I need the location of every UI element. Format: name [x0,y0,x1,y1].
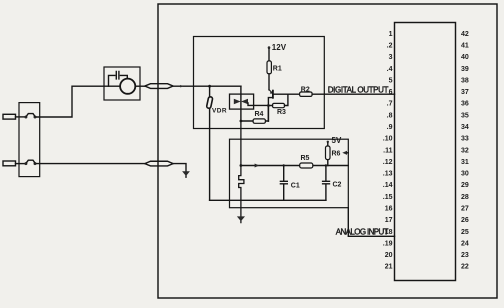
ground shield arrow [185,176,187,177]
wire marker to ground [173,164,186,172]
optocoupler / diac U1 [230,94,254,109]
svg-text:36: 36 [461,101,469,108]
svg-text:C2: C2 [333,182,342,189]
svg-text:R4: R4 [255,111,264,118]
transistor Q1 [269,90,272,93]
svg-text:R3: R3 [277,109,286,116]
svg-text:.19: .19 [383,240,393,247]
svg-text:5V: 5V [332,136,342,145]
resistor R1 [267,61,271,74]
svg-text:.8: .8 [387,112,393,119]
svg-text:.12: .12 [383,159,393,166]
svg-text:VDR: VDR [212,108,227,115]
wire marker to node at optocoupler [173,85,241,87]
contact top bridge [27,114,35,116]
arrowhead on rail [255,164,260,168]
svg-text:34: 34 [461,124,469,131]
svg-text:18: 18 [385,229,393,236]
wire mic output to cable marker [135,85,145,87]
svg-text:42: 42 [461,31,469,38]
connector J1 body [395,23,456,281]
outer interface board box [158,4,497,298]
wire lug top to plug [16,116,25,118]
svg-text:ANALOG INPUT: ANALOG INPUT [336,228,389,237]
svg-text:R1: R1 [273,65,282,72]
wire ground rail [210,199,326,201]
svg-text:25: 25 [461,229,469,236]
svg-text:30: 30 [461,171,469,178]
wire plug bottom contact to ground [36,163,145,165]
analog section box [230,139,349,208]
svg-text:20: 20 [385,252,393,259]
wire mic internal branch [109,75,128,86]
microphone element MIC [120,79,135,94]
svg-text:32: 32 [461,147,469,154]
svg-text:.7: .7 [387,101,393,108]
cable marker lower [145,161,173,166]
junction dot R4 left [240,120,243,123]
resistor R4 [253,119,266,123]
wire digital output to connector [312,93,394,95]
svg-text:28: 28 [461,194,469,201]
arrowhead on signal wire [180,85,183,88]
wire base lead [268,98,273,122]
svg-text:1: 1 [389,31,393,38]
junction dot VDR top [208,85,211,88]
wire analog rail [241,165,348,167]
svg-text:16: 16 [385,206,393,213]
svg-text:23: 23 [461,252,469,259]
wire diac output to base node [254,104,269,106]
svg-text:DIGITAL OUTPUT: DIGITAL OUTPUT [328,86,389,95]
svg-text:41: 41 [461,43,469,50]
svg-text:12V: 12V [272,43,287,52]
svg-text:.4: .4 [387,66,393,73]
wire R1 to transistor collector [268,74,270,90]
wire R3 leads [268,94,288,105]
svg-text:40: 40 [461,54,469,61]
svg-text:3: 3 [389,54,393,61]
svg-text:27: 27 [461,206,469,213]
connector pin numbers [383,31,469,271]
svg-text:.13: .13 [383,171,393,178]
contact top dots [24,116,27,119]
svg-text:37: 37 [461,89,469,96]
junction dot base node [267,104,270,107]
svg-text:R5: R5 [301,155,310,162]
capacitor C1 [280,166,287,201]
svg-text:31: 31 [461,159,469,166]
resistor R3 [273,103,285,107]
12V supply terminal [268,46,271,49]
junction dot rail left [240,164,243,167]
svg-text:29: 29 [461,182,469,189]
capacitor inside mic module [116,71,119,79]
resistor R5 [300,163,313,168]
svg-text:5: 5 [389,78,393,85]
svg-text:35: 35 [461,112,469,119]
svg-text:24: 24 [461,240,469,247]
capacitor C2 [323,166,330,201]
svg-text:17: 17 [385,217,393,224]
svg-text:.9: .9 [387,124,393,131]
svg-text:C1: C1 [291,183,300,190]
svg-text:26: 26 [461,217,469,224]
wire 12V to R1 [268,49,270,61]
contact bottom dots [24,162,27,165]
svg-text:.10: .10 [383,136,393,143]
svg-text:38: 38 [461,78,469,85]
svg-text:33: 33 [461,136,469,143]
wire diac center vertical [240,86,242,121]
pin lug bottom [3,161,16,166]
resistor R6 [327,143,329,166]
svg-text:R6: R6 [332,150,341,157]
svg-text:.14: .14 [383,182,393,189]
wire analog output to connector [348,208,394,237]
resistor R2 [300,92,313,96]
varistor VDR [209,86,211,200]
wire mic input [104,85,120,87]
wire plug top contact to mic box [36,86,104,117]
junction dot C2 rail [325,164,327,166]
svg-text:.11: .11 [383,147,392,154]
ground arrow analog [237,216,245,221]
svg-text:.2: .2 [387,43,393,50]
plug P1 body [19,103,40,177]
cable marker upper [145,84,173,89]
digital section box [194,37,325,129]
5V supply terminal [327,141,329,143]
crystal X1 zigzag [239,121,244,222]
svg-text:21: 21 [385,264,393,271]
junction dot C1 rail [283,164,285,166]
svg-text:39: 39 [461,66,469,73]
svg-text:6: 6 [389,89,393,96]
svg-text:.15: .15 [383,194,393,201]
contact bottom bridge [27,160,35,162]
arrow into R6 node [342,151,347,155]
svg-text:R2: R2 [301,87,310,94]
pin lug top [3,114,16,119]
svg-text:22: 22 [461,264,469,271]
wire lug bottom to plug [16,163,25,165]
wire R4 leads [241,106,269,122]
microphone module box [104,67,140,100]
wire emitter output [273,93,300,95]
